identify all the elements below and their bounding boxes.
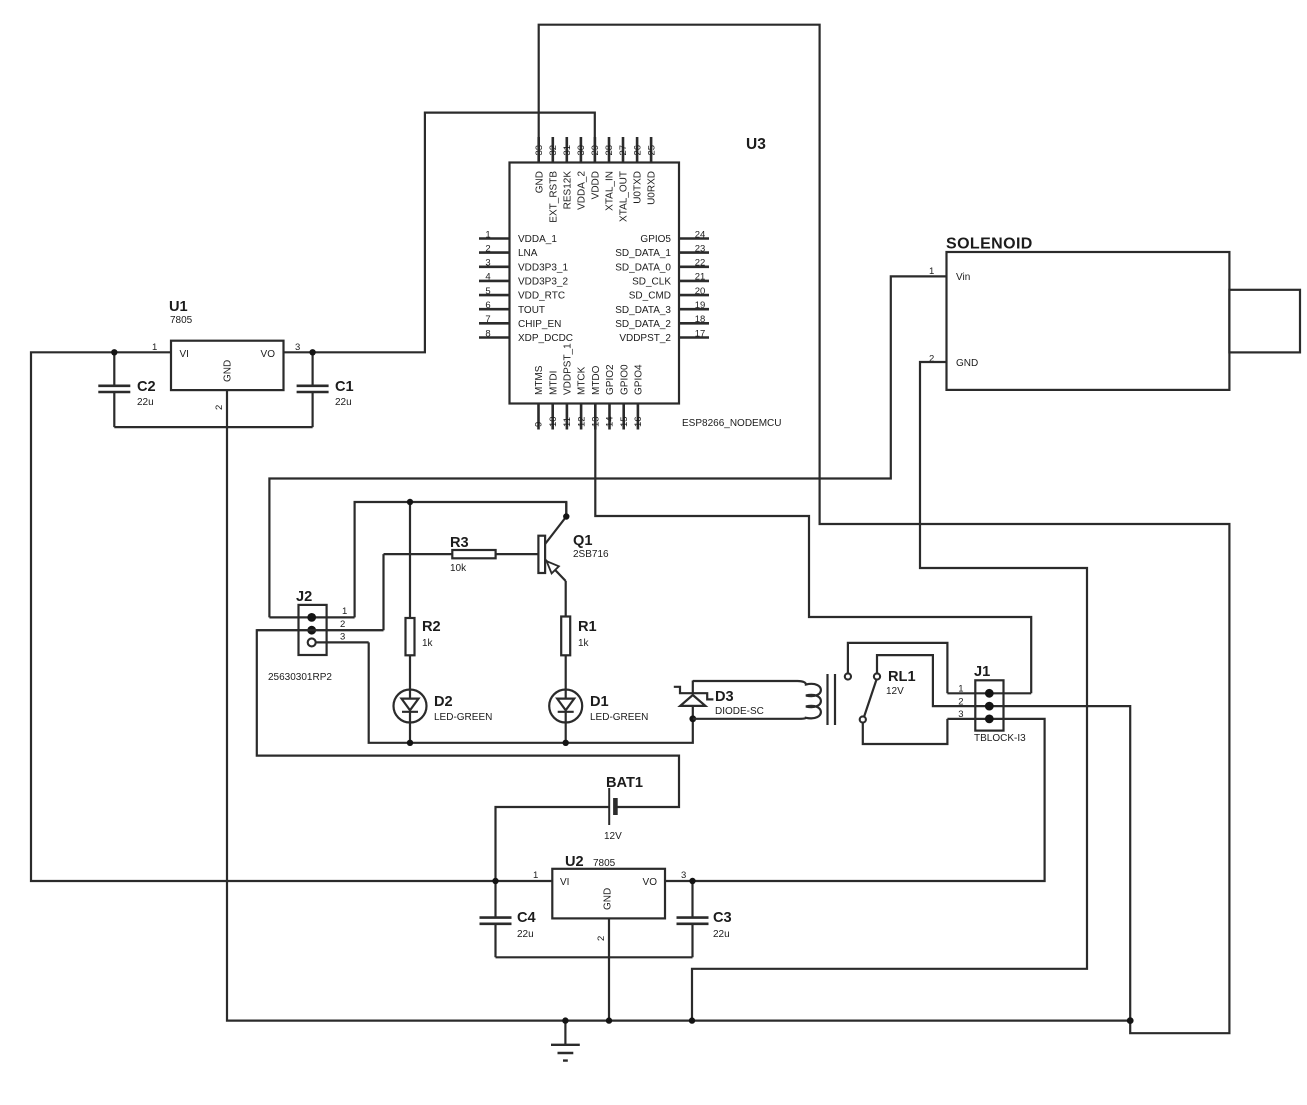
svg-text:C4: C4 — [517, 910, 537, 926]
svg-text:30: 30 — [576, 145, 587, 156]
J1 pin 2 contact dot — [985, 702, 994, 711]
svg-text:2SB716: 2SB716 — [573, 549, 609, 560]
svg-text:GND: GND — [534, 171, 545, 193]
R1 leads — [565, 581, 567, 690]
wire J2 pin1 up to LED top rail — [355, 502, 567, 617]
svg-text:U0TXD: U0TXD — [633, 171, 644, 204]
junction dot D1 bottom — [563, 740, 569, 746]
capacitor C2 leads — [113, 352, 115, 427]
U3 pin 11 stub — [566, 404, 569, 430]
svg-text:C2: C2 — [137, 379, 156, 395]
U3 pin 25 stub — [650, 137, 653, 163]
svg-text:D3: D3 — [715, 689, 734, 705]
svg-text:ESP8266_NODEMCU: ESP8266_NODEMCU — [682, 418, 781, 429]
svg-text:VDDPST_1: VDDPST_1 — [563, 343, 574, 395]
svg-text:3: 3 — [295, 342, 300, 353]
capacitor C1 leads — [312, 352, 314, 427]
svg-text:SD_DATA_1: SD_DATA_1 — [615, 248, 671, 259]
D3 cathode stem — [692, 681, 694, 694]
J2 pin 2 wire — [257, 629, 384, 631]
D1 bottom lead — [565, 722, 567, 743]
svg-text:LED-GREEN: LED-GREEN — [590, 712, 648, 723]
wire J2 pin3 to LED bottom rail to D3 — [369, 642, 693, 742]
U3 pin 17 stub — [679, 336, 709, 339]
svg-text:GPIO0: GPIO0 — [619, 364, 630, 395]
wire C2-C1 bottom rail — [114, 426, 312, 428]
relay switch arm — [864, 680, 876, 717]
svg-text:C3: C3 — [713, 910, 732, 926]
svg-text:U0RXD: U0RXD — [647, 171, 658, 205]
Q1 emitter arrow — [547, 561, 559, 573]
svg-text:9: 9 — [534, 422, 545, 427]
svg-text:16: 16 — [633, 416, 644, 427]
U3 pin 29 stub — [594, 137, 597, 163]
svg-text:25: 25 — [646, 145, 657, 156]
svg-text:32: 32 — [548, 145, 559, 156]
svg-text:XTAL_IN: XTAL_IN — [605, 171, 616, 211]
U3 pin 33 stub — [537, 137, 540, 163]
svg-text:VDD3P3_1: VDD3P3_1 — [518, 262, 568, 273]
svg-text:17: 17 — [695, 328, 706, 339]
resistor R3 body — [452, 550, 495, 558]
svg-text:SD_DATA_3: SD_DATA_3 — [615, 305, 671, 316]
svg-text:10: 10 — [548, 416, 559, 427]
junction dot D3 anode — [689, 715, 696, 722]
J1 pin 1 contact dot — [985, 689, 994, 698]
svg-text:5: 5 — [485, 286, 490, 297]
U3 pin 28 stub — [608, 137, 611, 163]
svg-text:R3: R3 — [450, 535, 469, 551]
wire solenoid GND down around to bottom rail — [692, 362, 1087, 1021]
J1 pin 3 contact dot — [985, 715, 994, 724]
svg-text:7805: 7805 — [170, 315, 193, 326]
svg-text:XDP_DCDC: XDP_DCDC — [518, 333, 573, 344]
svg-text:SOLENOID: SOLENOID — [946, 236, 1033, 253]
J2 pin 3 wire — [312, 641, 369, 643]
svg-text:GPIO4: GPIO4 — [634, 364, 645, 395]
battery BAT1 short plate — [613, 798, 618, 815]
diode D3 triangle — [680, 695, 705, 706]
U3 pin 23 stub — [679, 251, 709, 254]
svg-text:22: 22 — [695, 258, 706, 269]
svg-text:TOUT: TOUT — [518, 305, 545, 316]
wire relay pole to J1 pin3 — [863, 719, 948, 744]
relay contact circle NO — [874, 673, 880, 679]
wire U1 pin1 left down to U2 VI — [31, 352, 552, 881]
wire J1 pin3 line to U2 VO — [665, 719, 1045, 881]
D2 bottom lead — [409, 722, 411, 743]
svg-text:8: 8 — [485, 328, 490, 339]
resistor R2 body — [406, 618, 415, 655]
U3 pin 5 stub — [479, 294, 510, 297]
D2 internal diode — [402, 690, 418, 722]
svg-text:1k: 1k — [578, 638, 590, 649]
relay RL1 coil with leads — [693, 681, 821, 719]
U3 pin 24 stub — [679, 237, 709, 240]
svg-text:22u: 22u — [137, 397, 154, 408]
svg-text:SD_DATA_2: SD_DATA_2 — [615, 319, 671, 330]
svg-text:VDDA_2: VDDA_2 — [577, 171, 588, 210]
svg-text:MTMS: MTMS — [534, 365, 545, 395]
svg-text:2: 2 — [596, 936, 607, 941]
svg-text:1: 1 — [533, 870, 538, 881]
svg-text:11: 11 — [562, 417, 573, 427]
svg-text:2: 2 — [214, 405, 225, 410]
U3 pin 8 stub — [479, 336, 510, 339]
svg-text:J2: J2 — [296, 589, 312, 605]
svg-text:D1: D1 — [590, 694, 609, 710]
svg-text:TBLOCK-I3: TBLOCK-I3 — [974, 733, 1026, 744]
svg-text:20: 20 — [695, 286, 706, 297]
J2 pin 3 open contact — [308, 638, 316, 646]
wire R3 base from J2 pin2 riser — [382, 554, 384, 630]
svg-text:GPIO5: GPIO5 — [640, 234, 671, 245]
U3 pin 18 stub — [679, 322, 709, 325]
svg-text:7: 7 — [485, 314, 490, 325]
svg-text:6: 6 — [485, 300, 490, 311]
svg-text:XTAL_OUT: XTAL_OUT — [619, 171, 630, 222]
svg-text:U2: U2 — [565, 854, 584, 870]
transistor Q1 base bar — [538, 536, 545, 573]
svg-text:Q1: Q1 — [573, 533, 592, 549]
svg-text:12: 12 — [576, 416, 587, 427]
svg-text:BAT1: BAT1 — [606, 775, 643, 791]
svg-text:VDDPST_2: VDDPST_2 — [619, 333, 671, 344]
battery BAT1 long plate — [608, 788, 610, 825]
relay contact circle pole — [860, 716, 866, 722]
svg-text:10k: 10k — [450, 563, 467, 574]
connector J1 body — [975, 680, 1003, 730]
capacitor C2 plates — [98, 386, 130, 392]
svg-text:19: 19 — [695, 300, 706, 311]
U3 pin 32 stub — [551, 137, 554, 163]
junction dot solenoid GND drop at rail — [689, 1017, 695, 1023]
svg-text:RES12K: RES12K — [562, 171, 573, 210]
U3 pin 22 stub — [679, 265, 709, 268]
svg-text:24: 24 — [695, 229, 706, 240]
svg-text:VDD_RTC: VDD_RTC — [518, 291, 565, 302]
svg-text:1: 1 — [958, 684, 963, 695]
svg-text:3: 3 — [340, 632, 345, 643]
U3 pin 12 stub — [580, 404, 583, 430]
svg-text:7805: 7805 — [593, 858, 616, 869]
junction dot U2.3/C3 — [689, 878, 695, 884]
svg-text:GND: GND — [603, 888, 614, 910]
wire J1 pin1 line — [947, 692, 1031, 694]
relay contact circle common — [845, 673, 851, 679]
svg-text:31: 31 — [562, 145, 573, 156]
svg-text:U3: U3 — [746, 136, 766, 153]
U3 pin 15 stub — [622, 404, 625, 430]
U3 pin 3 stub — [479, 265, 510, 268]
U3 pin 7 stub — [479, 322, 510, 325]
IC U3 body — [510, 163, 680, 404]
regulator U2 body — [552, 869, 665, 919]
LED D2 circle — [394, 690, 427, 723]
svg-text:2: 2 — [485, 243, 490, 254]
svg-text:U1: U1 — [169, 299, 188, 315]
junction dot U1.3/C1 — [309, 349, 315, 355]
LED D1 circle — [549, 690, 582, 723]
svg-text:14: 14 — [605, 416, 616, 427]
ground symbol — [564, 1021, 566, 1044]
wire U1 VO to U3 pin29 VDDD — [284, 113, 595, 353]
J2 pin 1 contact dot — [307, 613, 316, 622]
svg-text:12V: 12V — [604, 831, 622, 842]
U3 pin 31 stub — [565, 137, 568, 163]
wire J2 pin2 to BAT1 positive — [257, 630, 679, 807]
svg-text:VDDD: VDDD — [591, 171, 602, 199]
junction dot R2 top — [407, 499, 413, 505]
svg-text:15: 15 — [619, 416, 630, 427]
svg-text:4: 4 — [485, 272, 490, 283]
U3 pin 6 stub — [479, 308, 510, 311]
svg-text:GND: GND — [223, 360, 234, 382]
Q1 collector wire — [545, 502, 566, 544]
U3 pin 21 stub — [679, 280, 709, 283]
svg-text:2: 2 — [340, 619, 345, 630]
U3 pin 2 stub — [479, 251, 510, 254]
svg-text:SD_DATA_0: SD_DATA_0 — [615, 262, 671, 273]
capacitor C4 plates — [480, 918, 512, 924]
diode D3 cathode bar with schottky hooks — [674, 687, 714, 700]
svg-text:VI: VI — [560, 877, 569, 888]
junction dot main GND corner — [1127, 1017, 1134, 1024]
svg-text:1: 1 — [485, 229, 490, 240]
capacitor C1 plates — [297, 386, 329, 392]
junction dot U2.1/C4/BAT1 — [492, 878, 498, 884]
U3 pin 26 stub — [636, 137, 639, 163]
solenoid body — [947, 252, 1230, 390]
svg-text:EXT_RSTB: EXT_RSTB — [548, 171, 559, 223]
U3 pin 16 stub — [637, 404, 640, 430]
wire C4-C3 bottom rail — [496, 956, 693, 958]
D3 anode stem — [692, 706, 694, 719]
svg-text:CHIP_EN: CHIP_EN — [518, 319, 561, 330]
svg-text:22u: 22u — [335, 397, 352, 408]
wire relay NO to J1 pin2 — [877, 655, 1130, 1021]
wire BAT1 negative to U2 VI junction — [496, 807, 610, 881]
wire solenoid Vin to J2 pin1 net — [269, 276, 946, 617]
svg-text:MTDO: MTDO — [591, 365, 602, 395]
solenoid plunger — [1229, 290, 1300, 353]
svg-text:MTCK: MTCK — [577, 366, 588, 395]
svg-text:LED-GREEN: LED-GREEN — [434, 712, 492, 723]
junction dot U1.1/C2 — [111, 349, 117, 355]
J2 pin 1 wire — [269, 616, 354, 618]
wire U3 pin13 MTDO to J1 pin1 — [595, 404, 1031, 694]
junction dot ground tap — [562, 1017, 568, 1023]
wire U3 pin33 GND loop (up, right, down right side to bottom junction) — [539, 25, 1230, 1033]
connector J2 body — [299, 605, 327, 655]
U3 pin 14 stub — [608, 404, 611, 430]
svg-text:3: 3 — [958, 709, 963, 720]
svg-text:VDDA_1: VDDA_1 — [518, 234, 557, 245]
wire relay common to J1 pin1 — [848, 643, 948, 693]
svg-text:21: 21 — [695, 272, 706, 283]
svg-text:DIODE-SC: DIODE-SC — [715, 706, 764, 717]
U3 pin 1 stub — [479, 237, 510, 240]
svg-text:R2: R2 — [422, 619, 441, 635]
U3 pin 4 stub — [479, 280, 510, 283]
junction dot U2 GND at rail — [606, 1017, 612, 1023]
U3 pin 10 stub — [551, 404, 554, 430]
Q1 emitter wire — [545, 560, 566, 582]
svg-text:26: 26 — [632, 145, 643, 156]
svg-text:R1: R1 — [578, 619, 597, 635]
junction dot Q1 collector — [563, 513, 569, 519]
svg-text:28: 28 — [604, 145, 615, 156]
svg-text:J1: J1 — [974, 664, 990, 680]
svg-text:C1: C1 — [335, 379, 354, 395]
U3 pin 13 stub — [594, 404, 597, 430]
D1 internal diode — [558, 690, 574, 722]
U3 pin 30 stub — [580, 137, 583, 163]
svg-text:12V: 12V — [886, 686, 904, 697]
U3 pin 20 stub — [679, 294, 709, 297]
svg-text:1: 1 — [342, 606, 347, 617]
capacitor C3 plates — [677, 918, 709, 924]
capacitor C3 leads — [691, 881, 693, 957]
U3 pin 9 stub — [537, 404, 540, 430]
U3 pin 19 stub — [679, 308, 709, 311]
svg-text:LNA: LNA — [518, 248, 538, 259]
resistor R1 body — [561, 617, 570, 656]
wire U1 pin2 GND down to bottom rail and rail to right junction — [227, 390, 1130, 1021]
svg-text:VI: VI — [180, 349, 189, 360]
svg-text:22u: 22u — [713, 929, 730, 940]
wire U2 pin2 GND to bottom rail — [608, 918, 610, 1020]
J2 pin 2 contact dot — [307, 626, 316, 635]
svg-text:GPIO2: GPIO2 — [605, 364, 616, 395]
capacitor C4 leads — [494, 881, 496, 957]
svg-text:MTDI: MTDI — [548, 371, 559, 395]
junction dot D2 bottom — [407, 740, 413, 746]
svg-text:1k: 1k — [422, 638, 434, 649]
R3 leads — [384, 553, 539, 555]
svg-text:SD_CLK: SD_CLK — [632, 277, 671, 288]
svg-text:27: 27 — [618, 145, 629, 156]
svg-text:Vin: Vin — [956, 272, 970, 283]
svg-text:2: 2 — [958, 696, 963, 707]
svg-text:SD_CMD: SD_CMD — [629, 291, 671, 302]
relay RL1 core bars — [828, 674, 836, 725]
R2 leads — [409, 502, 411, 690]
svg-text:VO: VO — [261, 349, 276, 360]
svg-text:3: 3 — [681, 870, 686, 881]
svg-text:23: 23 — [695, 243, 706, 254]
U3 pin 27 stub — [622, 137, 625, 163]
svg-text:VO: VO — [643, 877, 658, 888]
svg-text:VDD3P3_2: VDD3P3_2 — [518, 277, 568, 288]
svg-text:RL1: RL1 — [888, 669, 916, 685]
svg-text:22u: 22u — [517, 929, 534, 940]
svg-text:25630301RP2: 25630301RP2 — [268, 672, 332, 683]
svg-text:3: 3 — [485, 258, 490, 269]
svg-text:GND: GND — [956, 358, 978, 369]
svg-text:18: 18 — [695, 314, 706, 325]
svg-text:D2: D2 — [434, 694, 453, 710]
regulator U1 body — [171, 341, 284, 390]
